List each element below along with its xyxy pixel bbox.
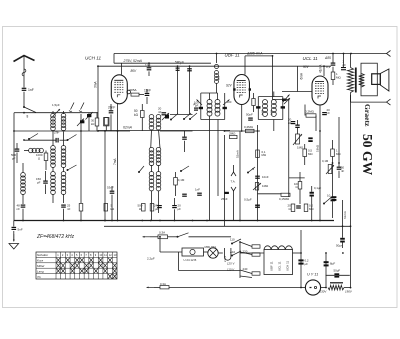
capacitor 240uF: [157, 205, 162, 206]
resistor 1M b: [331, 149, 335, 157]
coil L8b: [156, 172, 161, 177]
trimmer IF1a: [197, 100, 203, 106]
resistor 2M: [230, 135, 238, 138]
wire col150 down: [151, 191, 153, 221]
svg-text:U Y 11: U Y 11: [307, 272, 318, 276]
svg-text:4R5Δ: 4R5Δ: [129, 88, 137, 92]
resistor 0,1M avc: [174, 178, 178, 186]
coil IF1b: [215, 99, 220, 104]
wire col 117 7mA: [117, 104, 119, 221]
capacitor 500pF: [15, 149, 20, 150]
resistor 1000 ohm: [44, 153, 48, 161]
wire antenna to switch: [23, 92, 25, 107]
svg-text:N: N: [252, 167, 254, 171]
bus second: [104, 225, 351, 227]
coil IF2b: [271, 100, 276, 105]
svg-text:0,3A: 0,3A: [160, 282, 166, 286]
coil L4: [21, 173, 26, 178]
capacitor 50nF tone: [337, 167, 342, 168]
svg-text:230V: 230V: [319, 289, 328, 293]
svg-text:Graetz: Graetz: [363, 104, 372, 127]
trimmer IF2: [284, 98, 290, 104]
wire rail y63: [114, 62, 211, 64]
svg-text:52mA: 52mA: [236, 150, 240, 158]
svg-text:25nF: 25nF: [221, 197, 228, 201]
svg-text:10nF: 10nF: [262, 175, 269, 179]
wire right rail: [350, 95, 352, 288]
wire 3mA col: [97, 66, 99, 118]
wire row y131b: [160, 130, 193, 132]
wire rail y66: [98, 65, 331, 67]
transformer secondary: [359, 74, 365, 88]
wire IF1 bottom bar: [201, 119, 225, 121]
svg-text:8: 8: [27, 115, 29, 119]
resistor 100ohm: [298, 182, 302, 190]
tone pot: [328, 165, 332, 174]
svg-text:nF: nF: [17, 207, 21, 211]
svg-text:T.A.: T.A.: [231, 180, 236, 184]
heater dropper resistor: [328, 285, 344, 290]
svg-text:0,03: 0,03: [261, 109, 265, 115]
phono input TA: [231, 172, 236, 176]
trimmer osc a: [77, 119, 84, 127]
resistor 0,1M c: [256, 150, 260, 158]
svg-text:UCH 11: UCH 11: [286, 261, 290, 271]
fuse 0,3A: [158, 235, 168, 239]
capacitor det: [282, 99, 287, 101]
wire left bus horiz: [14, 112, 24, 114]
capacitor 10nF: [255, 176, 260, 177]
capacitor 1nF det2: [197, 193, 202, 194]
switch S1 antenna: [23, 106, 24, 107]
svg-text:µF: µF: [178, 207, 182, 211]
transformer core: [355, 68, 357, 93]
wire col 177: [177, 66, 179, 114]
wire col 326: [325, 253, 327, 288]
svg-text:80V: 80V: [131, 69, 138, 73]
wire lamp return: [178, 252, 180, 271]
mains plug arrow 2: [147, 286, 155, 288]
wire col 339: [338, 117, 340, 163]
wire col160 down: [158, 191, 160, 214]
resistor 0,5M: [303, 149, 307, 157]
coil L7b: [156, 147, 161, 152]
svg-text:MΩ: MΩ: [336, 75, 341, 79]
speaker driver: [372, 74, 381, 85]
svg-text:kΩ: kΩ: [91, 122, 94, 126]
svg-text:50µF: 50µF: [334, 268, 341, 272]
volume pot: [296, 134, 300, 144]
svg-text:0,1µF: 0,1µF: [314, 186, 321, 190]
switch avc: [180, 170, 181, 171]
resistor 0,2M psu: [304, 204, 308, 212]
contact hook a: [71, 103, 75, 110]
wire plate UCH up: [121, 63, 123, 74]
svg-text:Δ285 4mA: Δ285 4mA: [246, 52, 263, 56]
svg-text:pF: pF: [343, 63, 347, 67]
coil L2 horizontal: [29, 148, 33, 152]
svg-text:nF: nF: [341, 169, 345, 173]
trimmer IF1b: [223, 100, 230, 106]
wire grid UCL: [273, 99, 289, 101]
svg-text:50 GW: 50 GW: [360, 134, 375, 176]
wire IF1 right leg: [224, 93, 226, 120]
capacitor coupling out: [308, 137, 312, 139]
speaker frame: [361, 63, 377, 96]
wire bottom speaker: [351, 101, 387, 103]
wire RF row1: [24, 112, 98, 114]
capacitor 48nF: [21, 205, 26, 206]
wire IF2 left leg: [257, 97, 259, 120]
svg-text:1nF: 1nF: [145, 64, 151, 68]
coil L6b top: [156, 115, 161, 120]
switch 10: [323, 203, 324, 204]
wire col 216 top: [216, 54, 218, 64]
svg-text:0,3A: 0,3A: [159, 231, 165, 235]
svg-text:pF: pF: [12, 156, 16, 160]
wire selector vert: [239, 242, 241, 278]
resistor 500: [142, 204, 146, 212]
fuse 0,3A b: [160, 286, 169, 289]
svg-text:UCL 11: UCL 11: [278, 261, 282, 271]
ground symbol: [13, 231, 15, 241]
svg-text:2,2µF: 2,2µF: [147, 257, 155, 261]
svg-text:92V: 92V: [226, 84, 233, 88]
wire col 209 down: [209, 120, 211, 221]
wire col 288 down: [288, 120, 290, 197]
contact hook b: [81, 103, 85, 110]
connector top right: [387, 51, 391, 57]
antenna coupling squiggle: [22, 69, 26, 76]
svg-text:Mittel: Mittel: [37, 264, 45, 268]
svg-text:90V: 90V: [303, 65, 310, 69]
svg-text:2-0,3: 2-0,3: [223, 256, 227, 262]
svg-text:110 V: 110 V: [227, 267, 235, 271]
svg-text:0,15MΩ: 0,15MΩ: [279, 197, 290, 201]
svg-text:UCL 11: UCL 11: [303, 56, 319, 61]
svg-text:190V: 190V: [345, 289, 353, 293]
svg-text:µF: µF: [155, 207, 159, 211]
svg-text:11nF: 11nF: [144, 88, 151, 92]
capacitor det3: [182, 194, 187, 195]
coil L3b: [61, 146, 66, 151]
svg-text:pF: pF: [37, 180, 41, 184]
resistor col 152: [150, 204, 154, 212]
capacitor 50uF right: [340, 238, 345, 240]
svg-text:Kurz: Kurz: [37, 259, 44, 263]
switch S2b: [67, 139, 68, 140]
transformer primary: [348, 68, 354, 93]
wire IF2 up: [273, 92, 275, 97]
switch N: [247, 172, 248, 173]
svg-text:Schalter: Schalter: [37, 253, 49, 257]
wire IF1 top bar: [201, 92, 218, 94]
mains plug arrow: [143, 236, 151, 238]
svg-text:61mA: 61mA: [343, 211, 347, 219]
wire antenna lead: [23, 56, 25, 88]
svg-text:18kΩ: 18kΩ: [316, 144, 320, 152]
svg-text:62mA: 62mA: [123, 126, 133, 130]
svg-text:41mA: 41mA: [319, 64, 323, 73]
trimmer mid: [162, 113, 169, 120]
wire rail top y53: [114, 53, 387, 55]
resistor 0,15M det: [281, 193, 290, 196]
capacitor 5nF gnd: [13, 221, 15, 227]
wire col 150b: [151, 165, 153, 172]
tube UBF 11: [234, 75, 250, 105]
capacitor 1uF osc: [194, 108, 198, 109]
svg-text:0,5µF: 0,5µF: [244, 197, 252, 201]
capacitor 20nF ucl: [322, 112, 327, 113]
voltage selector contacts: [240, 242, 252, 247]
svg-text:2nF: 2nF: [54, 131, 60, 135]
switch osc row: [138, 171, 139, 172]
grid cap UBF: [215, 65, 219, 69]
svg-text:275V, 52mA: 275V, 52mA: [123, 59, 143, 63]
svg-text:Δ85: Δ85: [324, 56, 331, 60]
poti 1M: [255, 183, 258, 191]
wire row y130 mid: [98, 130, 230, 132]
capacitor 1nF antenna: [22, 88, 27, 89]
wire col 105: [104, 131, 106, 221]
coil L5b: [61, 172, 66, 177]
svg-text:kΩ: kΩ: [134, 113, 139, 117]
svg-text:µF: µF: [193, 102, 196, 106]
coil L5a: [51, 172, 56, 177]
resistor 1M top: [331, 72, 335, 80]
UBF grid pins: [233, 88, 235, 90]
wire col 224: [224, 135, 226, 226]
resistor 5k: [104, 204, 108, 212]
resistor 0,15M: [79, 204, 83, 212]
switch S2a: [28, 138, 29, 139]
resistor 30k col: [105, 118, 109, 126]
svg-text:8µF: 8µF: [330, 261, 335, 265]
svg-text:ZF=468/472 kHz: ZF=468/472 kHz: [36, 234, 75, 240]
switch band d: [170, 119, 171, 120]
capacitor out blob: [331, 197, 336, 199]
coil IF2a: [263, 100, 268, 105]
grid cap UCH: [127, 90, 131, 94]
svg-text:nF: nF: [327, 111, 331, 115]
wire UCL screen feed: [297, 66, 299, 91]
wire junction dots: [23, 112, 25, 114]
urdox resistor: [225, 248, 231, 260]
wire UCL plate up: [323, 66, 325, 76]
capacitor 25nF ta: [224, 192, 229, 194]
capacitor 0,5uF b: [255, 205, 260, 206]
resistor 20ohm: [291, 204, 295, 212]
svg-text:UBF 11: UBF 11: [270, 261, 274, 271]
capacitor blob 334: [332, 196, 337, 198]
wire col 216 mid: [216, 83, 218, 93]
speaker cone: [380, 69, 389, 91]
svg-text:53nF: 53nF: [107, 186, 114, 190]
svg-text:6mA: 6mA: [300, 72, 304, 79]
mains switch: [177, 236, 178, 237]
svg-text:7mA: 7mA: [113, 158, 117, 165]
wire UBF plate up: [245, 55, 273, 57]
resistor grid stopper: [131, 93, 139, 96]
resistor 100 ubf: [252, 99, 255, 106]
svg-text:240: 240: [243, 267, 248, 271]
switch 220: [231, 255, 232, 256]
svg-text:0,1: 0,1: [326, 65, 331, 69]
svg-text:UCH 11: UCH 11: [85, 56, 101, 61]
antenna: [14, 56, 35, 62]
capacitor 0,1 top: [331, 63, 336, 64]
connector bottom right: [387, 99, 391, 105]
coil L6a top: [149, 115, 154, 120]
ground bus: [14, 220, 334, 222]
svg-text:0,1M: 0,1M: [178, 178, 185, 182]
wire col 240: [239, 131, 241, 221]
svg-text:2MΩ: 2MΩ: [229, 131, 236, 135]
capacitor 1nF avc: [182, 137, 187, 138]
svg-text:1nF: 1nF: [195, 187, 200, 191]
wire IF2 bottom bar: [258, 119, 283, 121]
capacitor IF2 left: [256, 106, 260, 108]
wire osc col 81: [80, 114, 82, 203]
svg-text:Δ10: Δ10: [230, 250, 236, 254]
capacitor 8uF: [324, 261, 329, 263]
wire det out row: [289, 177, 305, 179]
svg-text:0,03: 0,03: [269, 109, 273, 115]
coil L8a: [149, 172, 154, 177]
svg-text:nF: nF: [67, 207, 71, 211]
svg-text:nF: nF: [158, 110, 162, 114]
svg-text:1MΩ: 1MΩ: [262, 184, 269, 188]
capacitor IF2 right: [281, 106, 285, 108]
svg-text:110: 110: [230, 238, 235, 242]
resistor 0,2M ucl: [306, 114, 316, 117]
svg-text:10: 10: [327, 194, 331, 198]
capacitor 5pF: [187, 68, 192, 69]
coil L1b: [61, 113, 66, 118]
wire col 218 down: [217, 120, 219, 197]
wire row y131: [14, 130, 130, 132]
svg-text:1nF: 1nF: [28, 88, 34, 92]
capacitor 25nF: [61, 205, 66, 206]
tube UCH 11: [111, 75, 127, 104]
wire col 189: [189, 66, 191, 114]
padder cap: [87, 114, 91, 117]
capacitor 20uF: [172, 205, 177, 206]
svg-text:1,5pF: 1,5pF: [52, 103, 60, 107]
wire col 160: [159, 130, 161, 149]
svg-text:100: 100: [227, 100, 232, 104]
capacitor psu1: [296, 205, 301, 206]
coil L1a: [51, 113, 56, 118]
capacitor plate psu: [330, 282, 343, 283]
wire lamp row: [160, 251, 182, 253]
svg-text:50µ+: 50µ+: [336, 243, 343, 247]
capacitor 100 if1b: [223, 107, 227, 109]
wire col 160b: [158, 165, 160, 172]
resistor 10k col: [95, 118, 99, 126]
switch band e: [183, 118, 184, 119]
svg-text:Lang: Lang: [37, 269, 44, 273]
wire osc col 89: [88, 113, 90, 131]
trimmer osc b: [86, 112, 93, 120]
switch table frame: [36, 252, 117, 279]
wire col 257: [257, 125, 259, 221]
switch table grid: [36, 256, 117, 258]
svg-text:TA: TA: [37, 275, 41, 279]
dial scale unit: [182, 248, 204, 256]
wire IF1 left leg: [200, 93, 202, 120]
svg-text:20nF: 20nF: [108, 106, 115, 110]
coil IF1a: [207, 99, 212, 104]
svg-text:U 24 12 B: U 24 12 B: [184, 258, 197, 262]
capacitor 50nF vol: [295, 125, 299, 126]
capacitor 0,2uF psu: [298, 259, 303, 261]
tube UY 11: [305, 280, 320, 295]
coil IF1 primary 0,9: [215, 71, 219, 75]
switch table X marks: [56, 258, 60, 263]
wire UBF bottom: [241, 105, 243, 132]
svg-text:0,9: 0,9: [217, 75, 221, 80]
wire left bus vertical: [13, 113, 15, 221]
dial lamp: [208, 248, 218, 258]
switch 110: [231, 243, 232, 244]
switch band f: [189, 118, 190, 119]
wire col 272 down: [272, 56, 274, 100]
switch S3: [67, 169, 68, 170]
resistor 0,2M b: [246, 129, 255, 132]
svg-text:125 V: 125 V: [227, 261, 235, 265]
wire det row: [258, 193, 282, 195]
wire IF2 down: [273, 120, 275, 132]
svg-text:3mA: 3mA: [94, 81, 98, 88]
svg-text:0,2MΩ: 0,2MΩ: [244, 125, 254, 129]
wire mains right: [189, 236, 232, 238]
coil L7a: [149, 147, 154, 152]
svg-text:0,2MΩ: 0,2MΩ: [305, 109, 315, 113]
wire col 301: [300, 230, 302, 280]
svg-text:5nF: 5nF: [18, 227, 23, 231]
wire UCL grid row: [282, 91, 312, 93]
wire box to C: [293, 252, 302, 254]
svg-text:UBF 11: UBF 11: [225, 53, 241, 58]
svg-text:µF: µF: [305, 262, 309, 266]
tube UCL 11: [312, 76, 328, 105]
wire IF2 top bar: [258, 96, 283, 98]
svg-text:Ω: Ω: [296, 185, 298, 189]
wire UCL cathode: [319, 105, 321, 221]
wire row 131 right: [225, 130, 261, 132]
capacitor c 0,1: [310, 192, 314, 194]
wire col 150: [150, 130, 153, 149]
wire band switch row: [170, 114, 193, 116]
svg-text:50pF: 50pF: [246, 112, 253, 116]
svg-text:0,1M: 0,1M: [322, 159, 329, 163]
wire IF2 right leg: [282, 97, 284, 120]
svg-text:580µF: 580µF: [175, 60, 184, 64]
coil L3a: [51, 146, 56, 151]
heater choke box: [264, 250, 293, 275]
